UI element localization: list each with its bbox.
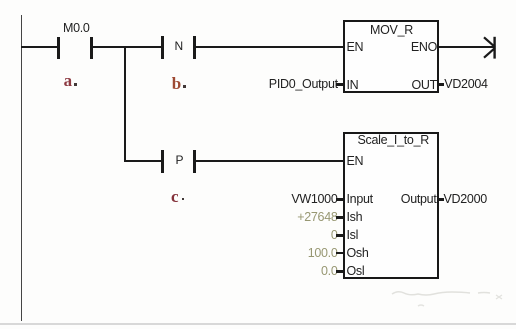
contact P right bar [193,150,196,173]
Scale pin Osl [347,265,365,278]
label a. letter [64,72,73,89]
Scale pin Input [347,193,373,206]
contact P left bar [161,150,164,173]
arrow terminator [478,30,502,64]
label b. dot [183,85,186,88]
constant 100.0 [291,247,338,260]
MOV_R title [370,24,413,37]
tick PID0_Output to IN [336,83,343,85]
MOV_R block box [343,20,440,93]
operand VD2004 [444,78,487,91]
contact N right bar [193,36,196,59]
constant 0 [291,229,338,242]
tick OUT to VD2004 [439,83,445,85]
wire M0.0 to branch and contact N [93,46,162,48]
Scale pin Output [390,193,437,206]
contact M0.0 left bar [57,37,60,59]
operand VW1000 [291,193,338,206]
contact M0.0 label [63,22,90,35]
Scale_I_to_R title [358,134,429,147]
Scale pin Osh [347,247,369,260]
operand VD2000 [444,193,487,206]
constant +27648 [291,211,338,224]
contact N left bar [161,36,164,59]
label b. letter [172,75,181,92]
wire rail to contact M0.0 [21,46,58,48]
label a. dot [74,83,77,86]
operand PID0_Output [269,78,335,91]
MOV_R pin EN [347,41,364,54]
tick 0 to Isl [336,234,343,236]
Scale pin Isl [347,229,359,242]
label c. dot [182,198,185,201]
wire contact P to Scale block [196,160,343,162]
contact P letter [176,154,184,167]
tick +27648 to Ish [336,216,343,218]
wire ENO to arrow [439,46,495,48]
wire branch to contact P [124,160,162,162]
faint watermark smudge [388,287,508,311]
branch vertical wire [124,46,126,162]
label c. letter [171,188,179,205]
bottom divider line [0,323,516,325]
left power rail [21,15,23,321]
tick 0.0 to Osl [336,270,343,272]
constant 0.0 [291,265,338,278]
MOV_R pin ENO [390,41,437,54]
Scale pin EN [347,155,364,168]
tick Output to VD2000 [439,198,445,200]
tick 100.0 to Osh [336,252,343,254]
MOV_R pin IN [347,79,359,92]
Scale_I_to_R block box [343,132,439,279]
tick VW1000 to Input [336,198,343,200]
MOV_R pin OUT [390,79,437,92]
contact N letter [175,40,183,53]
Scale pin Ish [347,211,363,224]
contact M0.0 right bar [90,37,93,59]
wire contact N to MOV_R block [196,46,343,48]
